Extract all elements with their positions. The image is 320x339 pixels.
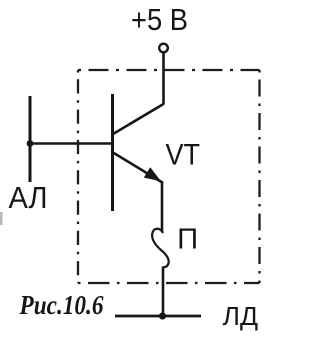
svg-text:+5 В: +5 В — [131, 2, 188, 37]
svg-text:П: П — [177, 224, 198, 256]
transistor emitter line — [113, 153, 162, 183]
terminal circle (+5V pin) — [159, 44, 168, 53]
wire collector vertical — [162, 53, 165, 105]
wire below fuse — [162, 267, 165, 318]
transistor emitter arrowhead — [144, 167, 161, 181]
svg-text:АЛ: АЛ — [9, 180, 48, 215]
input terminal bar AL — [29, 96, 32, 182]
svg-text:ЛД: ЛД — [223, 301, 259, 331]
scan artifact left edge — [0, 212, 3, 225]
wire base horizontal — [30, 142, 113, 145]
wire emitter vertical — [161, 181, 164, 232]
dash-dot boundary top edge — [78, 69, 260, 71]
junction dot bottom rail — [159, 312, 166, 319]
svg-text:VT: VT — [166, 139, 201, 172]
fuse link P squiggle — [152, 229, 169, 267]
dash-dot boundary left edge — [77, 70, 79, 283]
dash-dot boundary right edge — [258, 70, 260, 283]
svg-text:Рис.10.6: Рис.10.6 — [19, 290, 104, 320]
junction dot on base input — [27, 140, 34, 147]
transistor VT base bar — [111, 94, 114, 211]
bottom rail wire — [115, 315, 201, 318]
dash-dot boundary bottom edge — [78, 282, 260, 284]
wire collector diagonal — [113, 104, 164, 134]
